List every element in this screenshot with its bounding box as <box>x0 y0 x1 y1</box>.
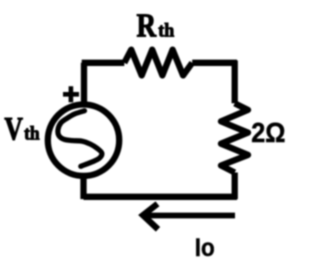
source U1 sine squiggle <box>58 111 102 167</box>
wire bottom horizontal <box>84 194 238 200</box>
svg-text:Io: Io <box>195 234 215 260</box>
resistor R2 zigzag (right, 2 ohm) <box>221 103 248 172</box>
label Vth subscript <box>24 123 40 144</box>
label Vth <box>4 112 23 148</box>
wire top horizontal left <box>82 60 125 66</box>
source U1 circle <box>48 105 119 176</box>
plus polarity sign <box>63 86 79 102</box>
svg-text:R: R <box>137 7 157 45</box>
wire right vertical lower <box>232 173 238 200</box>
svg-text:2Ω: 2Ω <box>251 117 285 149</box>
label 2 ohm <box>251 117 285 149</box>
label Io <box>195 234 215 260</box>
wire right vertical upper <box>232 61 238 104</box>
arrow Io head <box>143 204 158 230</box>
wire bottom-left vertical <box>80 176 86 200</box>
svg-text:th: th <box>24 123 40 144</box>
arrow Io shaft <box>145 213 236 219</box>
label Rth subscript <box>158 20 175 42</box>
wire top horizontal right <box>192 60 237 66</box>
label Rth <box>137 7 157 45</box>
svg-text:th: th <box>158 20 175 42</box>
wire top-left vertical <box>81 63 87 104</box>
resistor R1 zigzag (top, Rth) <box>124 50 192 76</box>
svg-text:V: V <box>4 112 23 148</box>
